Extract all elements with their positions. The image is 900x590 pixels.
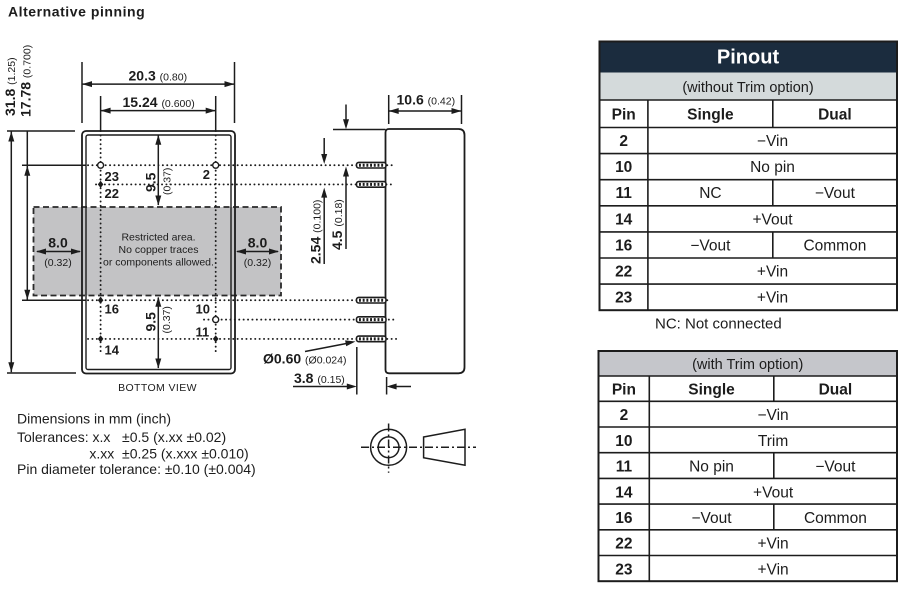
svg-text:+Vin: +Vin [757, 290, 788, 307]
svg-text:+Vout: +Vout [753, 484, 794, 501]
dimension 3.8 (0.15) [293, 347, 411, 395]
svg-text:Single: Single [688, 382, 735, 399]
svg-text:9.5: 9.5 [143, 172, 159, 192]
svg-text:23: 23 [615, 290, 633, 307]
svg-text:Tolerances: x.x ±0.5 (x.xx ±: Tolerances: x.x ±0.5 (x.xx ±0.02) [17, 429, 226, 445]
dimension 15.24 (0.600) [101, 96, 216, 131]
svg-text:Dual: Dual [818, 107, 852, 124]
svg-text:Pin: Pin [612, 107, 636, 124]
svg-text:or components allowed.: or components allowed. [103, 257, 214, 269]
body top extension line [333, 129, 386, 131]
dimension 4.5 (0.18) [345, 105, 347, 120]
svg-text:(with Trim option): (with Trim option) [692, 357, 803, 373]
svg-text:16: 16 [615, 237, 633, 254]
svg-text:+Vin: +Vin [758, 561, 789, 578]
svg-text:(0.37): (0.37) [162, 168, 174, 195]
svg-text:22: 22 [105, 186, 119, 201]
svg-text:NC: NC [699, 185, 721, 202]
svg-text:15.24 (0.600): 15.24 (0.600) [123, 94, 195, 110]
svg-text:Dual: Dual [819, 382, 853, 399]
pin 10 (circle) [213, 317, 219, 323]
svg-text:+Vout: +Vout [752, 211, 793, 228]
svg-text:(0.32): (0.32) [244, 257, 271, 269]
pin cone (side profile) [424, 429, 465, 465]
side view pin row4 [357, 317, 387, 323]
dimension 8.0 (0.32) right [237, 251, 278, 253]
svg-text:−Vout: −Vout [815, 185, 856, 202]
svg-text:(without Trim option): (without Trim option) [682, 80, 813, 96]
dimension 9.5 (0.37) upper [157, 136, 159, 206]
dimension 10.6 (0.42) [389, 95, 462, 124]
title: Alternative pinning [8, 4, 145, 20]
svg-text:8.0: 8.0 [48, 235, 68, 251]
side view body [386, 129, 465, 373]
dotted row line pins 23/2 [88, 164, 395, 166]
pin 14 (diamond) [98, 335, 104, 342]
svg-text:−Vout: −Vout [691, 510, 732, 527]
svg-text:22: 22 [615, 264, 632, 281]
side view pin row3 [357, 297, 387, 303]
svg-text:9.5: 9.5 [143, 312, 159, 332]
svg-text:BOTTOM VIEW: BOTTOM VIEW [118, 382, 197, 394]
pin 22 (diamond) [98, 181, 104, 188]
table grid [600, 42, 898, 311]
svg-text:Common: Common [804, 510, 867, 527]
svg-text:31.8 (1.25): 31.8 (1.25) [2, 57, 18, 116]
side view pin row5 [357, 336, 387, 342]
svg-text:x.xx ±0.25 (x.xxx ±0.010): x.xx ±0.25 (x.xxx ±0.010) [89, 446, 248, 462]
pin diameter callout Ø0.60 [305, 343, 349, 352]
svg-text:14: 14 [615, 211, 633, 228]
svg-text:14: 14 [105, 343, 120, 358]
dimension 2.54 (0.100) [323, 138, 325, 154]
restricted area (gray dashed rectangle) [34, 207, 282, 296]
svg-text:+Vin: +Vin [758, 536, 789, 553]
pinout table (without Trim option) [600, 42, 898, 311]
svg-text:10: 10 [615, 433, 632, 450]
dimension 31.8 (1.25) vertical [7, 131, 76, 373]
side view pin row1 [357, 162, 387, 168]
dotted row line pins 14/11 [88, 338, 399, 340]
svg-text:10.6 (0.42): 10.6 (0.42) [397, 92, 456, 108]
svg-text:Common: Common [803, 237, 866, 254]
dimension 17.78 (0.700) vertical [22, 131, 86, 300]
module outline bottom view (outer case) [82, 131, 235, 374]
svg-text:2: 2 [619, 133, 628, 150]
svg-text:−Vout: −Vout [815, 459, 856, 476]
svg-text:No copper traces: No copper traces [119, 244, 199, 256]
horizontal centerline through hole and cone [361, 446, 476, 448]
subtitle bar [599, 351, 898, 376]
svg-text:22: 22 [615, 536, 632, 553]
svg-text:23: 23 [615, 561, 633, 578]
svg-text:Dimensions in mm (inch): Dimensions in mm (inch) [17, 411, 171, 427]
header bar Pinout [600, 42, 898, 73]
svg-text:Alternative pinning: Alternative pinning [8, 4, 145, 20]
pinout table (with Trim option) [599, 351, 898, 581]
svg-text:Pinout: Pinout [717, 47, 780, 69]
dotted centerline column 2 (pins 2/10/11) [215, 131, 217, 352]
svg-text:+Vin: +Vin [757, 264, 788, 281]
svg-text:(0.37): (0.37) [161, 306, 173, 333]
svg-text:Pin: Pin [612, 382, 636, 399]
svg-text:NC: Not connected: NC: Not connected [655, 316, 782, 333]
pin 23 (circle) [98, 162, 104, 168]
svg-text:2.54 (0.100): 2.54 (0.100) [308, 200, 324, 264]
svg-text:(0.32): (0.32) [44, 257, 71, 269]
dimension 9.5 (0.37) lower [157, 298, 159, 369]
module outline bottom view (inner line) [86, 135, 231, 370]
svg-text:−Vin: −Vin [758, 407, 789, 424]
svg-text:Ø0.60 (Ø0.024): Ø0.60 (Ø0.024) [263, 351, 346, 367]
TABLES [599, 42, 898, 582]
svg-text:10: 10 [196, 301, 210, 316]
svg-text:Single: Single [687, 107, 734, 124]
svg-text:Trim: Trim [758, 433, 788, 450]
table grid [599, 351, 898, 581]
dotted row line pin 22 [96, 183, 395, 185]
svg-text:16: 16 [105, 301, 119, 316]
svg-text:Pin diameter tolerance: ±0.10: Pin diameter tolerance: ±0.10 (±0.004) [17, 461, 256, 477]
dotted centerline column 1 (pins 23/22/16/14) [100, 131, 102, 352]
pin 11 (diamond) [213, 335, 219, 342]
svg-text:14: 14 [615, 484, 633, 501]
side view pin row2 [357, 182, 387, 188]
svg-text:2: 2 [620, 407, 629, 424]
svg-text:11: 11 [616, 459, 633, 476]
svg-text:−Vout: −Vout [690, 237, 731, 254]
svg-text:3.8 (0.15): 3.8 (0.15) [294, 370, 345, 386]
svg-text:4.5 (0.18): 4.5 (0.18) [329, 199, 345, 250]
svg-text:20.3 (0.80): 20.3 (0.80) [129, 68, 188, 84]
pin 16 (diamond) [98, 297, 104, 304]
svg-text:16: 16 [615, 510, 633, 527]
svg-text:8.0: 8.0 [248, 235, 268, 251]
subtitle bar [600, 73, 898, 101]
mounting hole symbol (front view of pin) [371, 424, 407, 473]
svg-text:11: 11 [616, 185, 633, 202]
dimension 20.3 (0.80) [82, 62, 235, 123]
svg-text:10: 10 [615, 159, 632, 176]
svg-text:11: 11 [196, 325, 210, 340]
svg-text:Restricted area.: Restricted area. [121, 232, 195, 244]
dimension 8.0 (0.32) left [37, 251, 80, 253]
svg-text:−Vin: −Vin [757, 133, 788, 150]
svg-text:2: 2 [203, 167, 210, 182]
svg-text:No pin: No pin [750, 159, 795, 176]
svg-text:23: 23 [105, 169, 119, 184]
pin 2 (circle) [213, 162, 219, 168]
svg-text:17.78 (0.700): 17.78 (0.700) [18, 45, 34, 117]
dotted row line pin 10 [204, 319, 396, 321]
notes text block [17, 411, 256, 478]
dotted row line pin 16 [88, 299, 391, 301]
svg-text:No pin: No pin [689, 459, 734, 476]
